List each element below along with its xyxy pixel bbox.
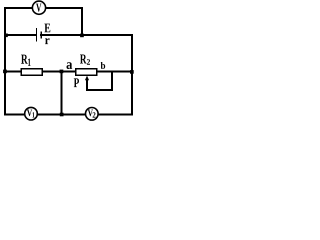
battery E long plate (36, 28, 38, 42)
wire wiper P to b loop (87, 71, 112, 90)
label E (emf) (44, 24, 50, 33)
wire R-row left of R1 (5, 70, 21, 72)
voltmeter V circle (32, 1, 45, 14)
label R2 (80, 55, 90, 65)
resistor R1 box (21, 69, 42, 76)
label V (top voltmeter) (36, 4, 41, 12)
voltmeter V1 circle (25, 107, 38, 120)
wire left border (4, 8, 6, 114)
wire bottom middle segment between V1 and V2 (38, 114, 85, 116)
battery E short plate (40, 31, 42, 38)
wire bottom left segment (5, 114, 24, 116)
wire R-row between R1 and R2 (43, 70, 75, 72)
junction dot b wire at right border (130, 70, 134, 74)
wire bottom right segment (98, 114, 131, 116)
junction dot battery line below top-right vertical (80, 34, 84, 38)
wire right border (131, 35, 133, 114)
wire top-right of voltmeter V (46, 7, 82, 9)
wire battery line left segment (5, 34, 36, 36)
junction dot bottom wire below node a vertical (60, 113, 64, 117)
junction dot battery line at left border (4, 34, 8, 38)
wire battery line right segment (41, 34, 132, 36)
junction dot node a (60, 70, 64, 74)
label V1 (voltmeter 1) (27, 110, 35, 118)
label V2 (voltmeter 2) (88, 110, 96, 118)
wire top-left horizontal (5, 7, 32, 9)
label R1 (21, 55, 31, 66)
label a (67, 62, 73, 69)
wire vertical from top wire down to battery line (81, 8, 83, 35)
wire vertical from node a down to bottom wire (61, 71, 63, 114)
label b (101, 62, 106, 69)
rheostat wiper arrow head (85, 76, 89, 81)
wire R-row right of R2 to right border (97, 70, 132, 72)
label r (internal resistance) (45, 38, 50, 44)
junction dot R-row at left border (3, 70, 7, 74)
label P (74, 78, 79, 87)
rheostat R2 box (76, 69, 97, 76)
voltmeter V2 circle (86, 108, 99, 121)
